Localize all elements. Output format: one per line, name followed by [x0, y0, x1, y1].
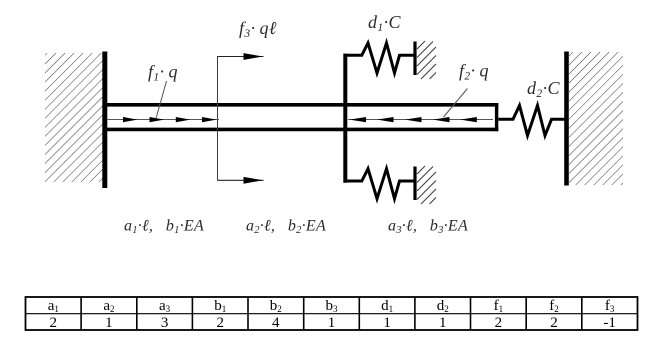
svg-text:f2: f2 [549, 298, 559, 314]
svg-text:1: 1 [383, 315, 391, 331]
svg-text:3: 3 [161, 315, 169, 331]
svg-text:d1: d1 [381, 298, 393, 314]
svg-text:1: 1 [439, 315, 447, 331]
svg-text:a2: a2 [103, 298, 114, 314]
svg-text:a2·ℓ, b2·EA: a2·ℓ, b2·EA [246, 218, 326, 237]
svg-text:b3: b3 [326, 298, 339, 314]
svg-text:-1: -1 [603, 315, 616, 331]
svg-text:f1· q: f1· q [148, 62, 178, 84]
svg-text:a3: a3 [159, 298, 171, 314]
svg-text:f3: f3 [605, 298, 615, 314]
svg-text:b1: b1 [214, 298, 226, 314]
svg-text:4: 4 [272, 315, 280, 331]
svg-text:1: 1 [105, 315, 113, 331]
svg-text:f2· q: f2· q [459, 61, 489, 83]
svg-text:d2: d2 [437, 298, 449, 314]
svg-text:d1·C: d1·C [368, 12, 401, 34]
svg-text:2: 2 [216, 315, 224, 331]
svg-text:2: 2 [495, 315, 503, 331]
svg-text:b2: b2 [270, 298, 282, 314]
svg-text:a1: a1 [48, 298, 59, 314]
svg-text:2: 2 [550, 315, 558, 331]
svg-text:a3·ℓ, b3·EA: a3·ℓ, b3·EA [388, 218, 468, 237]
svg-text:f3· qℓ: f3· qℓ [239, 18, 277, 40]
svg-text:a1·ℓ, b1·EA: a1·ℓ, b1·EA [124, 218, 204, 237]
svg-text:d2·C: d2·C [527, 78, 560, 100]
svg-text:2: 2 [50, 315, 58, 331]
svg-text:1: 1 [328, 315, 336, 331]
svg-text:f1: f1 [494, 298, 504, 314]
